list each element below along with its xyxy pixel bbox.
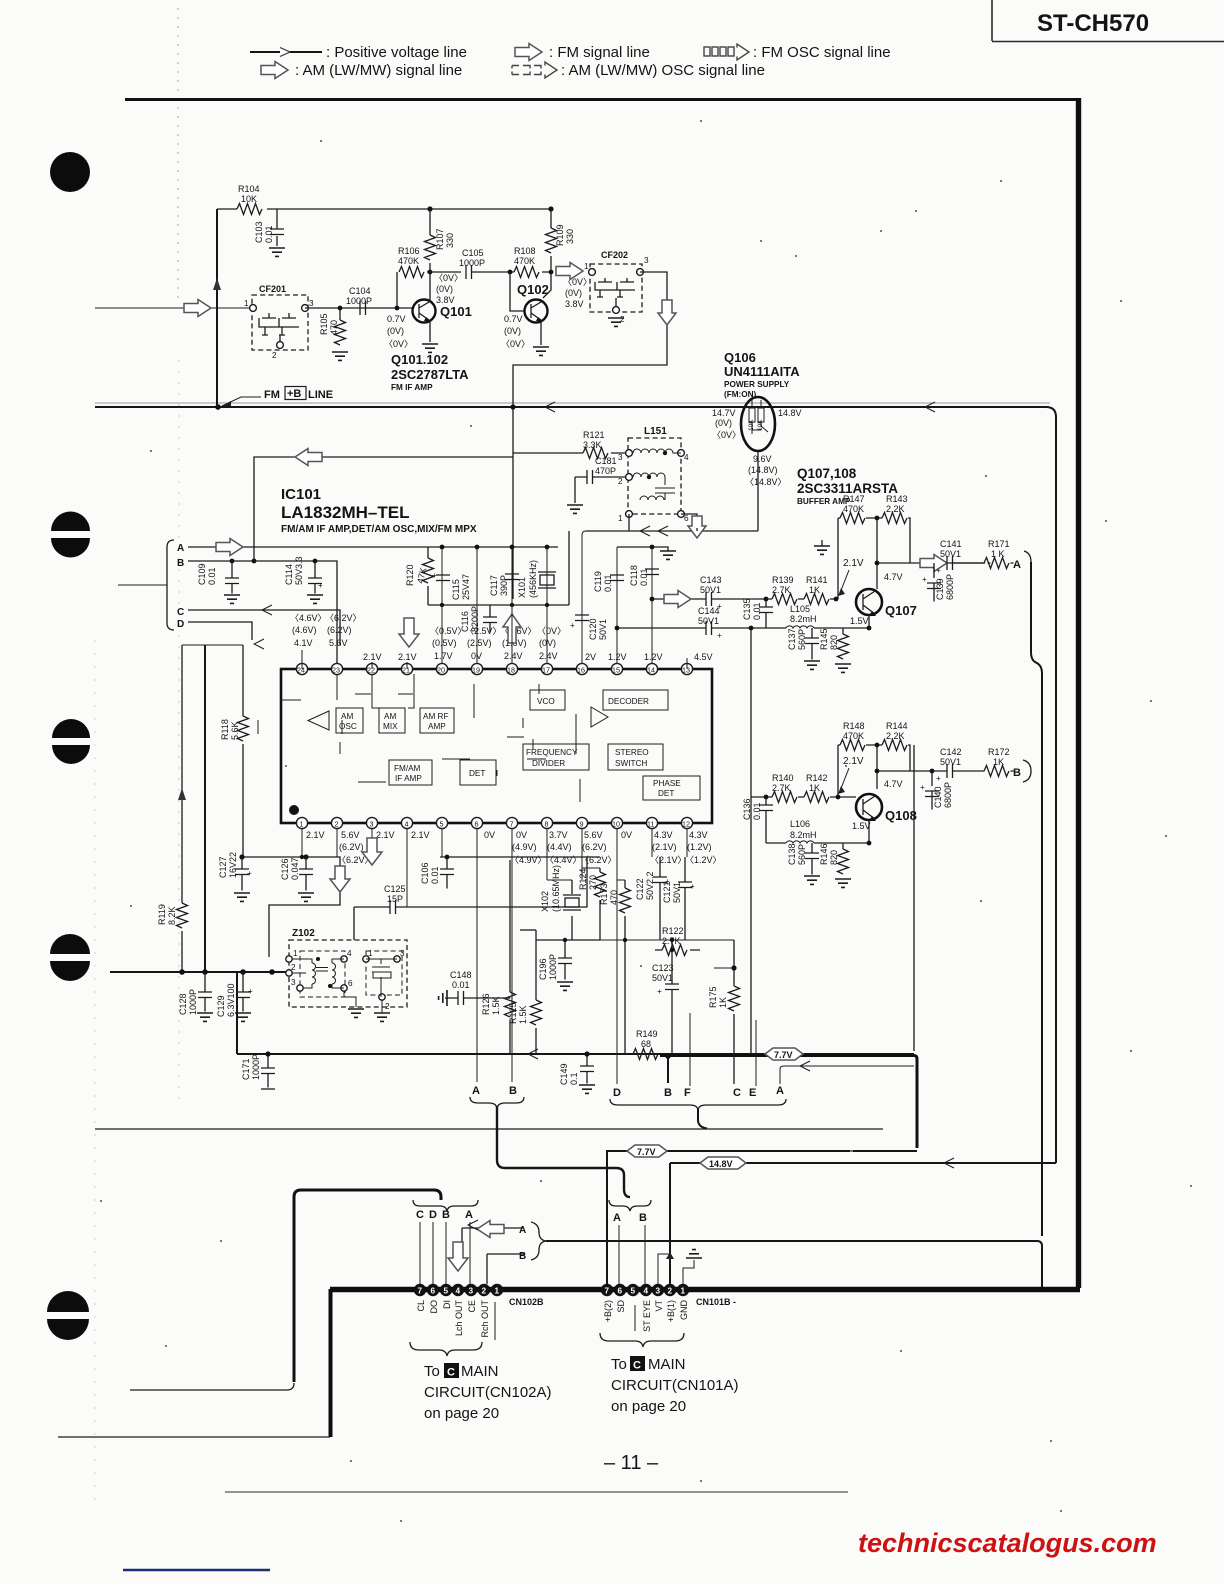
svg-text:R147: R147 bbox=[843, 494, 865, 504]
svg-text:1K: 1K bbox=[809, 783, 820, 793]
brace above CN101B bbox=[609, 1200, 651, 1211]
capacitor C128 bbox=[178, 972, 213, 1021]
svg-text:A: A bbox=[1013, 559, 1021, 571]
svg-text:FM/AM: FM/AM bbox=[394, 764, 421, 773]
connector CN101B pin 6 bbox=[614, 1284, 626, 1296]
svg-text:330: 330 bbox=[445, 233, 455, 248]
amp triangle right bbox=[591, 707, 608, 727]
svg-text:: AM (LW/MW) signal line: : AM (LW/MW) signal line bbox=[295, 62, 462, 79]
svg-text:UN4111AITA: UN4111AITA bbox=[724, 364, 800, 379]
svg-text:4.7V: 4.7V bbox=[884, 572, 903, 582]
svg-text:6: 6 bbox=[348, 979, 353, 988]
svg-text:270: 270 bbox=[588, 875, 598, 890]
connector CN102B pin 4 bbox=[452, 1284, 464, 1296]
svg-text:〈14.8V〉: 〈14.8V〉 bbox=[745, 477, 787, 487]
connector CN102B pin 1 bbox=[491, 1284, 503, 1296]
svg-text:1000P: 1000P bbox=[548, 954, 558, 980]
svg-text:1: 1 bbox=[618, 514, 623, 523]
svg-text:17: 17 bbox=[542, 666, 550, 675]
svg-text:(2.5V): (2.5V) bbox=[467, 638, 492, 648]
wire AB brace feed path bbox=[497, 1106, 630, 1197]
svg-text:(0V): (0V) bbox=[715, 418, 732, 428]
capacitor C138 bbox=[787, 843, 820, 884]
svg-text:1 K: 1 K bbox=[991, 549, 1005, 559]
svg-text:1K: 1K bbox=[809, 585, 820, 595]
block PHASE DET bbox=[643, 776, 700, 800]
svg-text:6: 6 bbox=[618, 1287, 623, 1296]
capacitor C137 bbox=[787, 628, 820, 669]
svg-text:2.7K: 2.7K bbox=[772, 585, 791, 595]
wire CF201 to Q101 base bbox=[305, 307, 413, 309]
svg-text:8: 8 bbox=[545, 820, 549, 829]
wire R104 bus y209 bbox=[217, 206, 554, 211]
svg-text:: FM OSC signal line: : FM OSC signal line bbox=[753, 44, 891, 61]
IC pin 19 bbox=[471, 663, 482, 674]
wire Q101 emitter ground bbox=[422, 320, 438, 352]
IC pin 17 bbox=[541, 663, 552, 674]
resistor R142 bbox=[804, 773, 829, 803]
capacitor C196 bbox=[536, 938, 600, 991]
IC101 body bbox=[281, 669, 712, 823]
FM +B rail wire bbox=[95, 402, 1056, 1163]
resistor R143 bbox=[882, 494, 908, 524]
flag 7.7V on bus bbox=[765, 1048, 803, 1060]
svg-text:R175: R175 bbox=[708, 986, 718, 1008]
resistor R171 bbox=[984, 539, 1010, 569]
svg-text:470P: 470P bbox=[595, 466, 616, 476]
wire 14.8V line y1163 bbox=[670, 1158, 1056, 1168]
svg-text:10K: 10K bbox=[241, 194, 257, 204]
capacitor C143 bbox=[700, 575, 722, 611]
capacitor C117 bbox=[489, 574, 519, 596]
svg-text:(FM:ON): (FM:ON) bbox=[724, 390, 757, 399]
svg-text:L106: L106 bbox=[790, 819, 810, 829]
svg-text:10: 10 bbox=[612, 820, 620, 829]
IC pin 18 bbox=[506, 663, 517, 674]
svg-text:〈0V〉: 〈0V〉 bbox=[434, 273, 463, 283]
svg-text:C117: C117 bbox=[489, 575, 499, 596]
svg-text:R148: R148 bbox=[843, 721, 865, 731]
svg-text:18: 18 bbox=[507, 666, 515, 675]
node letter B mid bbox=[664, 1087, 672, 1099]
hollow arrow down pin3 bbox=[362, 838, 382, 865]
wire y857 right segment bbox=[440, 855, 587, 860]
svg-text:C149: C149 bbox=[559, 1063, 569, 1085]
label Q106 bbox=[724, 350, 800, 399]
svg-text:1K: 1K bbox=[993, 757, 1004, 767]
svg-text:6.3V100: 6.3V100 bbox=[226, 983, 236, 1017]
svg-text:16: 16 bbox=[577, 666, 585, 675]
svg-text:2.7K: 2.7K bbox=[772, 783, 791, 793]
block AM MIX bbox=[379, 708, 405, 733]
wire B output line y771 bbox=[875, 769, 1014, 774]
svg-text:C125: C125 bbox=[384, 884, 406, 894]
svg-text:4: 4 bbox=[456, 1287, 461, 1296]
resistor R122 bbox=[655, 926, 700, 956]
capacitor C125 bbox=[354, 884, 588, 940]
svg-text:〈0V〉: 〈0V〉 bbox=[712, 430, 741, 440]
svg-text:0.7V: 0.7V bbox=[387, 314, 406, 324]
watermark technicscatalogus.com bbox=[858, 1528, 1157, 1558]
label CN101B bbox=[696, 1297, 736, 1307]
brace below CN101B bbox=[600, 1333, 684, 1347]
voltage pin14 bbox=[644, 652, 663, 662]
wire to CF202 with arrow bbox=[556, 262, 589, 280]
voltage stack pin9 bbox=[580, 830, 617, 865]
svg-text:3: 3 bbox=[644, 256, 649, 265]
svg-text:CIRCUIT(CN102A): CIRCUIT(CN102A) bbox=[424, 1384, 552, 1401]
voltage pin4 bbox=[411, 830, 430, 840]
svg-text:1K: 1K bbox=[718, 997, 728, 1008]
svg-text:AM RF: AM RF bbox=[423, 712, 448, 721]
legend positive voltage line symbol bbox=[250, 44, 467, 61]
wire line B bbox=[188, 559, 337, 663]
svg-text:2V: 2V bbox=[585, 652, 596, 662]
svg-text:+B(1): +B(1) bbox=[666, 1300, 676, 1322]
brace under DBF bbox=[610, 1099, 786, 1111]
svg-text:2.1V: 2.1V bbox=[363, 652, 382, 662]
svg-text:+: + bbox=[717, 631, 722, 640]
block FM AM IF AMP bbox=[389, 760, 432, 785]
wire L151 pin6 down arrow bbox=[681, 514, 706, 538]
hollow arrow down x340 bbox=[330, 866, 350, 892]
capacitor C119 bbox=[593, 571, 624, 592]
svg-text:15P: 15P bbox=[387, 894, 403, 904]
svg-text:4.1V: 4.1V bbox=[294, 638, 313, 648]
svg-text:R118: R118 bbox=[220, 719, 230, 740]
block DECODER bbox=[603, 690, 668, 710]
svg-text:2.4V: 2.4V bbox=[504, 651, 523, 661]
scan speckles bbox=[100, 120, 1192, 1522]
svg-text:Q108: Q108 bbox=[885, 808, 917, 823]
svg-text:5.6V: 5.6V bbox=[329, 638, 348, 648]
svg-text:CE: CE bbox=[467, 1300, 477, 1313]
svg-text:4: 4 bbox=[405, 820, 409, 829]
svg-text:C128: C128 bbox=[178, 993, 188, 1015]
FM +B rail gray echo bbox=[95, 402, 1050, 404]
svg-text:〈0V〉: 〈0V〉 bbox=[563, 277, 592, 287]
svg-text:(4.4V): (4.4V) bbox=[547, 842, 572, 852]
thin wire y1390 bbox=[130, 1383, 294, 1390]
svg-text:(4.6V): (4.6V) bbox=[292, 625, 317, 635]
IC pin 4 bbox=[401, 817, 412, 828]
svg-text:To: To bbox=[611, 1356, 627, 1373]
svg-text:3.8V: 3.8V bbox=[565, 299, 584, 309]
wire Q102 collector bbox=[543, 270, 553, 298]
wire 7.7V drop to CN101B pin7 bbox=[606, 1150, 608, 1285]
svg-text:D: D bbox=[429, 1209, 437, 1221]
wire line D bbox=[188, 622, 264, 649]
wire 14.8V drop to CN101B pin2 bbox=[669, 1163, 671, 1285]
svg-text:C141: C141 bbox=[940, 539, 962, 549]
block AM RF AMP bbox=[420, 708, 454, 733]
svg-text:A: A bbox=[613, 1212, 621, 1224]
svg-text:2: 2 bbox=[618, 477, 623, 486]
svg-text:0.01: 0.01 bbox=[639, 568, 649, 586]
bus 7.7V horizontal y1054 bbox=[237, 1049, 917, 1148]
svg-text:CIRCUIT(CN101A): CIRCUIT(CN101A) bbox=[611, 1377, 739, 1394]
svg-text:(456KHz): (456KHz) bbox=[528, 560, 538, 598]
svg-text:50V1: 50V1 bbox=[598, 619, 608, 640]
svg-text:1000P: 1000P bbox=[459, 258, 485, 268]
capacitor C121 bbox=[662, 857, 695, 941]
svg-text:2.1V: 2.1V bbox=[376, 830, 395, 840]
svg-text:STEREO: STEREO bbox=[615, 748, 649, 757]
svg-text:C: C bbox=[447, 1367, 455, 1379]
svg-text:470K: 470K bbox=[843, 504, 864, 514]
antenna input wire bbox=[95, 300, 253, 317]
svg-text:〈4.6V〉: 〈4.6V〉 bbox=[290, 613, 327, 623]
brace above CN102B bbox=[413, 1200, 478, 1211]
svg-text:C109: C109 bbox=[197, 563, 207, 585]
svg-text:E: E bbox=[749, 1087, 756, 1099]
wire base line Q107 y599 bbox=[650, 591, 839, 608]
node letter C bbox=[733, 1087, 741, 1099]
svg-text:8.2mH: 8.2mH bbox=[790, 614, 817, 624]
svg-text:C144: C144 bbox=[698, 606, 720, 616]
svg-text:0.01: 0.01 bbox=[207, 567, 217, 585]
resistor R173 bbox=[599, 880, 631, 1054]
svg-text:A: A bbox=[519, 1225, 526, 1236]
svg-text:C106: C106 bbox=[420, 862, 430, 884]
svg-text:B: B bbox=[639, 1212, 647, 1224]
node letter F bbox=[684, 1087, 691, 1099]
svg-text:(4.9V): (4.9V) bbox=[512, 842, 537, 852]
text To C MAIN CN102A bbox=[424, 1363, 552, 1422]
voltage labels Q106 emitter bbox=[745, 454, 787, 487]
svg-text:B: B bbox=[1013, 767, 1021, 779]
page number bbox=[604, 1452, 659, 1474]
block VCO bbox=[530, 690, 565, 710]
connector CN101B pin 7 bbox=[601, 1284, 613, 1296]
svg-text:20: 20 bbox=[437, 666, 445, 675]
svg-text:390P: 390P bbox=[499, 575, 509, 596]
resistor R175 bbox=[708, 940, 740, 1084]
IC pin 15 bbox=[611, 663, 622, 674]
svg-text:13: 13 bbox=[682, 666, 690, 675]
wire stub brace CDBA thick bbox=[294, 1190, 441, 1382]
wire Q107 emitter bbox=[868, 615, 870, 628]
voltage labels Q108 bbox=[852, 779, 903, 831]
ground near C141 top bbox=[814, 540, 830, 554]
svg-text:6: 6 bbox=[431, 1287, 436, 1296]
perforation dotted line top bbox=[177, 8, 179, 300]
svg-text:2.1V: 2.1V bbox=[843, 558, 864, 569]
svg-text:MIX: MIX bbox=[383, 722, 398, 731]
voltage pin16 bbox=[585, 652, 596, 662]
svg-text:C171: C171 bbox=[241, 1058, 251, 1080]
voltage stack pin20 bbox=[430, 626, 467, 661]
voltage pin1 bbox=[306, 830, 325, 840]
svg-text:R124: R124 bbox=[578, 868, 588, 890]
FM +B LINE label bbox=[215, 387, 333, 410]
svg-text:FM IF AMP: FM IF AMP bbox=[391, 383, 433, 392]
svg-text:POWER SUPPLY: POWER SUPPLY bbox=[724, 380, 790, 389]
svg-text:C123: C123 bbox=[652, 963, 674, 973]
resistor R119 bbox=[157, 903, 188, 928]
filter CF201 bbox=[244, 284, 314, 360]
capacitor C136 bbox=[742, 797, 773, 826]
svg-text:B: B bbox=[177, 558, 184, 569]
resistor R149 bbox=[633, 1029, 658, 1060]
svg-text:(0V): (0V) bbox=[539, 638, 556, 648]
resistor R148 bbox=[840, 721, 865, 751]
CN101B pin name GND bbox=[679, 1300, 689, 1321]
svg-text:0.047: 0.047 bbox=[290, 857, 300, 880]
svg-text:3: 3 bbox=[291, 978, 296, 987]
legend AM OSC signal line symbol bbox=[512, 62, 765, 79]
svg-text:ST-CH570: ST-CH570 bbox=[1037, 10, 1149, 37]
crystal X102 bbox=[540, 865, 581, 940]
svg-text:C103: C103 bbox=[254, 221, 264, 243]
resistor R121 bbox=[513, 430, 629, 459]
svg-text:B: B bbox=[664, 1087, 672, 1099]
title ST-CH570 bbox=[1037, 10, 1149, 37]
svg-text:VCO: VCO bbox=[537, 697, 555, 706]
svg-text:+B(2): +B(2) bbox=[603, 1300, 613, 1322]
svg-text:3: 3 bbox=[618, 453, 623, 462]
svg-text:MAIN: MAIN bbox=[648, 1356, 686, 1373]
capacitor C106 bbox=[420, 857, 454, 889]
svg-text:Rch OUT: Rch OUT bbox=[480, 1300, 490, 1338]
wire VT tap bbox=[658, 1252, 674, 1284]
legend FM signal line symbol bbox=[515, 44, 650, 62]
svg-text:CN102B: CN102B bbox=[509, 1297, 544, 1307]
capacitor C103 bbox=[254, 209, 285, 256]
svg-text:R146: R146 bbox=[819, 843, 829, 865]
svg-text:Z102: Z102 bbox=[292, 928, 315, 939]
wire base bias y272 bbox=[427, 270, 551, 275]
transistor Q101 bbox=[413, 300, 472, 323]
wire left margin stub bbox=[118, 584, 167, 586]
svg-text:(2.1V): (2.1V) bbox=[652, 842, 677, 852]
svg-text:R105: R105 bbox=[319, 313, 329, 335]
brace DBF tail bbox=[698, 1108, 707, 1129]
wire line A bbox=[188, 539, 558, 556]
svg-text:C121: C121 bbox=[662, 881, 672, 903]
svg-text:5: 5 bbox=[444, 1287, 449, 1296]
resistor R120 bbox=[405, 547, 434, 605]
IC pin 16 bbox=[576, 663, 587, 674]
wire left riser x217 bbox=[213, 209, 221, 407]
svg-text:Q101: Q101 bbox=[440, 304, 472, 319]
svg-text:C127: C127 bbox=[218, 856, 228, 878]
connector CN101B pin 1 bbox=[677, 1284, 689, 1296]
svg-text:C129: C129 bbox=[216, 995, 226, 1017]
connector CN101B pin 2 bbox=[664, 1284, 676, 1296]
bottom rule line bbox=[225, 1491, 848, 1493]
punch hole mark 1 bbox=[50, 152, 90, 192]
svg-text:R120: R120 bbox=[405, 564, 415, 586]
resistor R139 bbox=[772, 575, 797, 605]
svg-text:: FM signal line: : FM signal line bbox=[549, 44, 650, 61]
CN102B pin name Rch OUT bbox=[480, 1300, 495, 1340]
svg-text:470K: 470K bbox=[514, 256, 535, 266]
svg-text:2: 2 bbox=[335, 820, 339, 829]
connector CN102B label letters bbox=[416, 1209, 473, 1221]
IC inner wires bbox=[258, 674, 580, 802]
svg-text:+: + bbox=[247, 869, 252, 878]
pin stub wires below IC bbox=[302, 829, 687, 907]
voltage labels Q106 bbox=[712, 408, 802, 440]
IC pin 10 bbox=[611, 817, 622, 828]
svg-text:(10.65MHz): (10.65MHz) bbox=[551, 865, 561, 912]
svg-text:DIVIDER: DIVIDER bbox=[532, 759, 565, 768]
svg-text:1: 1 bbox=[368, 949, 373, 958]
svg-text:Q107,108: Q107,108 bbox=[797, 466, 857, 481]
voltage stack pin24 bbox=[290, 613, 327, 648]
svg-text:4.3V: 4.3V bbox=[689, 830, 708, 840]
svg-text:IF AMP: IF AMP bbox=[395, 774, 422, 783]
IC pin 13 bbox=[681, 663, 692, 674]
svg-text:+: + bbox=[690, 882, 695, 891]
svg-text:560P: 560P bbox=[797, 629, 807, 650]
capacitor C123 bbox=[652, 940, 679, 1055]
voltage label Q107 base bbox=[838, 558, 864, 596]
svg-text:2.1V: 2.1V bbox=[411, 830, 430, 840]
wire base line Q108 y797 bbox=[751, 795, 856, 800]
svg-text:C126: C126 bbox=[280, 858, 290, 880]
svg-text:B: B bbox=[519, 1251, 526, 1262]
punch hole mark 3 bbox=[52, 719, 90, 764]
resistor R141 bbox=[804, 575, 829, 605]
svg-text:6: 6 bbox=[684, 514, 689, 523]
svg-text:AM: AM bbox=[341, 712, 353, 721]
legend FM OSC signal line symbol bbox=[704, 44, 891, 61]
svg-text:5.6K: 5.6K bbox=[230, 721, 240, 740]
block STEREO SWITCH bbox=[608, 744, 663, 770]
svg-text:0.7V: 0.7V bbox=[504, 314, 523, 324]
svg-text:12: 12 bbox=[682, 820, 690, 829]
svg-text:5: 5 bbox=[440, 820, 444, 829]
CN101B pin name B1 bbox=[666, 1300, 676, 1322]
capacitor C126 bbox=[280, 857, 314, 901]
wire stubs to node letters bbox=[477, 829, 914, 1086]
svg-text:R107: R107 bbox=[435, 228, 445, 250]
connector CN101B pin 5 bbox=[627, 1284, 639, 1296]
svg-text:C148: C148 bbox=[450, 970, 472, 980]
wire line y857 below IC bbox=[239, 854, 340, 957]
long thin wire y1129 bbox=[95, 1128, 883, 1130]
svg-text:4: 4 bbox=[684, 453, 689, 462]
svg-text:LINE: LINE bbox=[308, 389, 333, 401]
svg-text:1.5K: 1.5K bbox=[491, 996, 501, 1015]
voltage pin22 bbox=[363, 652, 382, 662]
svg-text:470: 470 bbox=[329, 320, 339, 335]
svg-text:L151: L151 bbox=[644, 426, 667, 437]
svg-text:0.01: 0.01 bbox=[752, 602, 762, 620]
svg-text:(1.2V): (1.2V) bbox=[687, 842, 712, 852]
svg-text:C: C bbox=[177, 607, 184, 618]
svg-text:LA1832MH–TEL: LA1832MH–TEL bbox=[281, 503, 409, 522]
transistor Q106 bbox=[741, 397, 775, 451]
wire Q101 collector bbox=[428, 270, 433, 302]
capacitor C116 bbox=[460, 605, 497, 633]
voltage stack pin18 bbox=[500, 626, 537, 661]
wire CF202 out loop bbox=[510, 272, 667, 599]
ground above IC right bbox=[617, 545, 676, 560]
svg-text:10K: 10K bbox=[748, 419, 755, 431]
svg-text:〈1.2V〉: 〈1.2V〉 bbox=[685, 855, 722, 865]
svg-text:+: + bbox=[920, 783, 925, 792]
frame right border bbox=[1076, 98, 1081, 1288]
wires CN101B letters to pins bbox=[619, 1225, 645, 1284]
capacitor C127 bbox=[218, 852, 252, 901]
wire audio line y1241 to CN102B bbox=[546, 1241, 1042, 1287]
resistor R172 bbox=[984, 747, 1010, 777]
connector CN101B pin 3 bbox=[652, 1284, 664, 1296]
svg-text:25V47: 25V47 bbox=[461, 574, 471, 600]
